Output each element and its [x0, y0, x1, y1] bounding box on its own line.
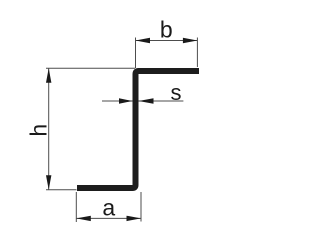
dimension h: line [48, 68, 50, 190]
svg-text:a: a [102, 194, 115, 220]
dimension h: arrow top (points up) [46, 68, 51, 83]
dimension a: line [76, 217, 141, 219]
svg-text:s: s [171, 80, 182, 105]
dimension a: extension line left [75, 192, 77, 222]
dimension b: extension line right [196, 38, 198, 68]
dimension a: extension line right [140, 192, 142, 222]
dimension s: line right [139, 100, 184, 102]
svg-text:h: h [26, 124, 52, 137]
dimension h: extension line bottom [46, 189, 77, 191]
dimension b: arrow right [183, 38, 198, 43]
dimension a: arrow right [127, 216, 142, 221]
dimension b: extension line left [135, 38, 137, 69]
dimension h: arrow bottom (points down) [46, 175, 51, 190]
dimension h: extension line top [46, 67, 135, 69]
dimension b: arrow left [136, 38, 151, 43]
dimension s: arrow right (points left at web) [139, 98, 154, 103]
dimension a: arrow left [76, 216, 91, 221]
dimension s: line left [102, 100, 133, 102]
svg-text:b: b [160, 17, 173, 43]
Z-profile outline [77, 71, 199, 188]
dimension b: line [136, 40, 198, 42]
dimension s: arrow left (points right at web) [119, 98, 133, 103]
